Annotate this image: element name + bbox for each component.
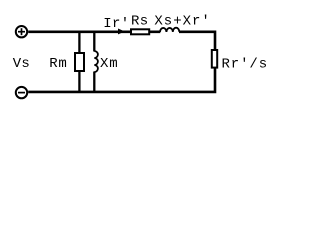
inductor Xs+Xr' (series coil, 3 bumps up) — [160, 28, 179, 32]
svg-text:Rm: Rm — [49, 56, 67, 72]
wire: top rail (left of coil) — [28, 31, 160, 34]
terminal + (top left) — [16, 26, 27, 37]
terminal - (bottom left) — [16, 87, 27, 98]
svg-text:Vs: Vs — [13, 56, 30, 72]
wire: top rail (right of coil), right drop, bottom rail — [28, 32, 215, 92]
inductor Xm (vertical coil, 3 bumps right) — [94, 51, 98, 72]
svg-text:Xm: Xm — [100, 56, 118, 72]
svg-text:Ir': Ir' — [103, 16, 129, 32]
svg-text:Rr'/s: Rr'/s — [222, 56, 269, 72]
svg-text:Rs: Rs — [131, 14, 148, 30]
wire: shunt branch Xm, upper segment — [93, 32, 95, 52]
resistor Rr'/s (vertical box on right wire) — [212, 50, 217, 68]
resistor Rs (series, horizontal box) — [131, 29, 149, 34]
svg-text:Xs+Xr': Xs+Xr' — [154, 14, 210, 30]
current arrow Ir' on top wire — [118, 29, 125, 35]
resistor Rm (vertical box) — [75, 53, 84, 71]
wire: shunt branch Rm — [78, 32, 80, 92]
wire: shunt branch Xm, lower segment — [93, 72, 95, 92]
